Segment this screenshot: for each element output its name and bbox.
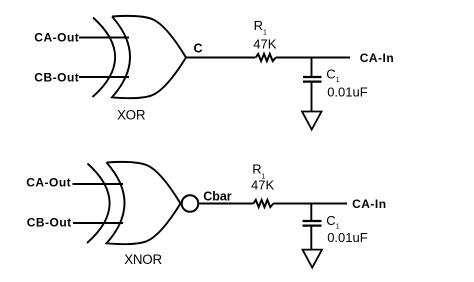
svg-text:C: C: [326, 213, 335, 228]
svg-text:47K: 47K: [253, 37, 276, 52]
capacitor C1 top plate: [303, 76, 322, 78]
wire CB-Out input (bottom): [73, 222, 123, 224]
svg-text:R: R: [254, 18, 263, 33]
wire CB-Out input (top): [79, 76, 129, 78]
wire resistor R1 to CA-In: [276, 57, 350, 59]
resistor R1 zigzag: [256, 54, 276, 61]
svg-text:C: C: [194, 42, 203, 56]
XNOR gate U2 body: [107, 162, 181, 244]
svg-text:Cbar: Cbar: [203, 189, 232, 203]
svg-text:CB-Out: CB-Out: [34, 70, 79, 84]
resistor R1 zigzag (bottom): [253, 200, 273, 207]
wire node C to resistor R1: [186, 57, 256, 59]
ground symbol (bottom): [303, 250, 323, 268]
XOR gate U1 input-side extra arc: [93, 18, 116, 98]
XNOR gate U2 input-side extra arc: [87, 164, 110, 244]
svg-text:CA-In: CA-In: [360, 51, 395, 65]
wire resistor R1 to CA-In (bottom): [273, 203, 347, 205]
wire CA-Out input (bottom): [73, 183, 124, 185]
svg-text:CA-In: CA-In: [352, 197, 387, 211]
svg-text:CA-Out: CA-Out: [26, 176, 71, 190]
ground symbol (top): [302, 112, 322, 130]
svg-text:1: 1: [336, 77, 340, 84]
capacitor C1 bottom plate (bottom): [303, 225, 322, 227]
wire node Cbar to resistor R1: [199, 203, 253, 205]
wire CA-Out input (top): [79, 37, 129, 39]
svg-text:47K: 47K: [251, 177, 274, 192]
svg-text:0.01uF: 0.01uF: [327, 84, 368, 99]
svg-text:CA-Out: CA-Out: [34, 31, 79, 45]
svg-text:R: R: [252, 161, 261, 176]
svg-text:0.01uF: 0.01uF: [327, 230, 368, 245]
wire junction to capacitor C1 top lead: [311, 58, 313, 77]
capacitor C1 bottom lead wire: [311, 83, 313, 111]
capacitor C1 bottom plate: [303, 80, 322, 82]
XOR gate U1 body: [112, 16, 186, 98]
svg-text:C: C: [326, 67, 335, 82]
svg-text:XOR: XOR: [117, 108, 146, 123]
svg-text:CB-Out: CB-Out: [27, 215, 72, 229]
svg-text:1: 1: [263, 29, 267, 36]
capacitor C1 bottom lead wire (bottom): [310, 227, 312, 249]
capacitor C1 top plate (bottom): [303, 220, 322, 222]
wire junction to capacitor C1 top lead (bottom): [310, 204, 312, 221]
XNOR inverter bubble: [182, 195, 199, 212]
svg-text:XNOR: XNOR: [124, 252, 162, 267]
